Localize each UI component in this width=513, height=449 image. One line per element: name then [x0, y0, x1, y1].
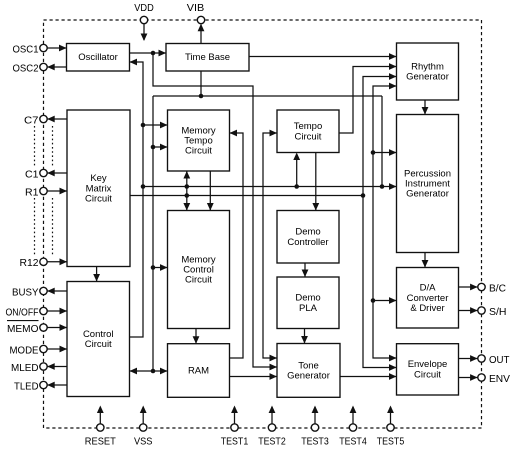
pin B/C	[478, 282, 507, 294]
wire Tempo Circuit to Demo Controller	[312, 153, 319, 211]
svg-text:PercussionInstrumentGenerator: PercussionInstrumentGenerator	[404, 168, 451, 199]
wire TEST5 stub arrow	[387, 406, 394, 424]
svg-text:VIB: VIB	[187, 2, 205, 14]
pin VIB	[187, 2, 205, 24]
wire BUSY pin	[47, 288, 67, 295]
wire ON/OFF pin	[47, 308, 67, 315]
svg-text:TEST2: TEST2	[258, 436, 286, 448]
svg-text:R12: R12	[20, 257, 39, 269]
block Tempo Circuit U5	[277, 110, 339, 153]
wire oscillator tee down to Tone Generator input 2	[153, 53, 277, 370]
pin OSC1	[13, 43, 48, 55]
svg-text:B/C: B/C	[489, 282, 506, 294]
wire branch to Control Circuit and RAM	[130, 368, 168, 375]
block D/A Converter &amp; Driver U11	[397, 268, 459, 329]
svg-text:OSC1: OSC1	[13, 43, 39, 55]
wire TEST4 stub arrow	[350, 406, 357, 424]
svg-text:OUT: OUT	[489, 354, 510, 366]
wire Time Base to VIB	[198, 24, 205, 44]
pin OUT	[478, 354, 510, 366]
wire left bus x=153 down	[152, 96, 154, 371]
wire D/A to S/H	[459, 307, 478, 314]
svg-text:BUSY: BUSY	[12, 286, 39, 298]
block Percussion Instrument Generator U7	[397, 115, 459, 253]
block Envelope Circuit U15	[397, 344, 459, 395]
wire C7 pin	[47, 116, 67, 123]
wire Memory Tempo down to Memory Control Circuit	[207, 171, 214, 211]
wire Envelope to OUT	[459, 355, 478, 362]
pin OSC2	[13, 62, 48, 74]
wire Oscillator output to Time Base (junction at node)	[130, 50, 167, 57]
wire MEMO pin	[47, 324, 67, 331]
wire Rhythm Generator to Percussion Instrument Generator	[422, 100, 429, 115]
pin BUSY	[12, 286, 47, 298]
pin TEST4	[339, 424, 367, 448]
block Memory Tempo Circuit U4	[168, 110, 230, 171]
pin ON/OFF	[6, 306, 48, 318]
svg-text:C7: C7	[24, 114, 39, 126]
wire Time Base to Rhythm Generator input 1	[249, 53, 397, 60]
pin VSS	[134, 424, 153, 448]
block Time Base U2	[166, 44, 249, 72]
svg-text:MemoryTempoCircuit: MemoryTempoCircuit	[181, 125, 216, 156]
wire TEST2 stub arrow	[269, 406, 276, 424]
block Tone Generator U14	[277, 344, 340, 398]
pin R12	[20, 257, 48, 269]
wire Memory Control to RAM	[193, 329, 200, 344]
pin TEST5	[377, 424, 405, 448]
wire RAM to Memory Tempo Circuit (x=243 bus)	[230, 130, 244, 358]
svg-text:TEST4: TEST4	[339, 436, 367, 448]
pin MODE	[10, 344, 48, 356]
svg-text:VDD: VDD	[134, 2, 154, 14]
pin TEST1	[221, 424, 249, 448]
wire tee up into Tempo Circuit bottom	[293, 153, 300, 187]
wire VDD stub arrow	[141, 24, 148, 41]
wire Envelope to ENV	[459, 374, 478, 381]
wire Time Base bottom bus (node)	[153, 71, 382, 98]
wire MODE pin	[47, 346, 67, 353]
chip boundary (dashed border)	[44, 20, 482, 428]
block Oscillator U1	[67, 44, 130, 72]
pin MLED	[11, 362, 47, 374]
svg-text:RhythmGenerator: RhythmGenerator	[406, 61, 449, 82]
wire Tempo Circuit to Rhythm Generator input 2	[339, 63, 397, 133]
wire bus x=263 Tempo in / Tone Generator in 1	[263, 130, 277, 362]
svg-text:TEST5: TEST5	[377, 436, 405, 448]
svg-text:VSS: VSS	[134, 436, 153, 448]
block Rhythm Generator U3	[397, 43, 459, 100]
wire D/A to B/C	[459, 284, 478, 291]
svg-text:MEMO: MEMO	[7, 323, 39, 335]
wire RESET stub arrow	[97, 406, 104, 424]
pin TLED	[14, 380, 47, 392]
pin MEMO	[7, 321, 47, 335]
wire R1 pin	[47, 188, 67, 195]
pin C7	[24, 114, 47, 126]
wire RAM to Tone Generator input 3	[230, 373, 278, 380]
block RAM U13	[168, 344, 230, 398]
wire Time Base bus down x=382	[381, 96, 383, 187]
wire R12 pin	[47, 258, 67, 265]
block Memory Control Circuit U8	[168, 211, 230, 329]
pin R1	[25, 186, 47, 198]
wire TLED pin	[47, 382, 67, 389]
svg-text:RESET: RESET	[85, 436, 117, 448]
wire branch to Memory Tempo Circuit input 2	[151, 144, 168, 151]
wire Oscillator to OSC2	[47, 64, 66, 71]
svg-text:MODE: MODE	[10, 344, 39, 356]
svg-text:Time Base: Time Base	[185, 52, 230, 63]
svg-text:TEST1: TEST1	[221, 436, 249, 448]
wire Key Matrix output y=195.5	[130, 193, 365, 198]
wire Control Circuit feedback to Oscillator (x=143 bus)	[130, 59, 144, 337]
svg-text:TEST3: TEST3	[301, 436, 329, 448]
svg-text:TLED: TLED	[14, 380, 39, 392]
wire MLED pin	[47, 363, 67, 370]
dotted continuation marks C7..C1	[35, 126, 53, 166]
svg-text:DemoPLA: DemoPLA	[295, 292, 320, 313]
pin ENV	[478, 373, 510, 385]
block Key Matrix Circuit U6	[67, 110, 130, 267]
svg-text:ENV: ENV	[489, 373, 510, 385]
dotted continuation marks R1..R12	[35, 198, 53, 255]
svg-text:TempoCircuit: TempoCircuit	[294, 121, 323, 142]
wire bus x=363 Rhythm Generator in 3 / Envelope in 2	[363, 73, 397, 371]
block Control Circuit U12	[67, 282, 130, 397]
pin C1	[25, 168, 47, 180]
svg-text:RAM: RAM	[188, 365, 209, 376]
wire Demo PLA to Tone Generator	[301, 329, 308, 344]
wire Key Matrix to Control Circuit	[93, 267, 100, 282]
wire branch to Memory Tempo Circuit input 1	[141, 122, 168, 129]
svg-text:MLED: MLED	[11, 362, 39, 374]
wire Memory Tempo to Memory Control (bidirectional)	[183, 171, 190, 211]
pin TEST3	[301, 424, 329, 448]
pin VDD	[134, 2, 154, 24]
svg-text:S/H: S/H	[489, 306, 507, 318]
wire branch to Memory Control Circuit input	[151, 264, 168, 271]
svg-text:Oscillator: Oscillator	[78, 52, 118, 63]
svg-text:C1: C1	[25, 168, 39, 180]
pin RESET	[85, 424, 117, 448]
block Demo Controller U9	[277, 211, 339, 264]
block Demo PLA U10	[277, 277, 339, 329]
wire TEST1 stub arrow	[231, 406, 238, 424]
svg-text:OSC2: OSC2	[13, 62, 39, 74]
svg-text:MemoryControlCircuit: MemoryControlCircuit	[181, 254, 216, 285]
pin TEST2	[258, 424, 286, 448]
svg-text:ControlCircuit: ControlCircuit	[83, 328, 114, 349]
wire OSC1 to Oscillator	[47, 45, 66, 52]
wire TEST3 stub arrow	[312, 406, 319, 424]
wire VSS stub arrow	[140, 406, 147, 424]
wire bus x=373 Rhythm Gen in 4 / PIG in 1 / DA in / Envelope in 1	[371, 83, 397, 362]
wire C1 pin	[47, 170, 67, 177]
pin S/H	[478, 306, 507, 318]
wire PIG to D/A Converter	[422, 253, 429, 268]
wire Tone Generator to Envelope input 3	[340, 373, 397, 380]
wire horizontal net y=186.5 to Percussion Instrument Generator	[141, 183, 397, 190]
svg-text:ON/OFF: ON/OFF	[6, 306, 39, 318]
wire Demo Controller to Demo PLA	[302, 263, 309, 277]
svg-text:R1: R1	[25, 186, 39, 198]
